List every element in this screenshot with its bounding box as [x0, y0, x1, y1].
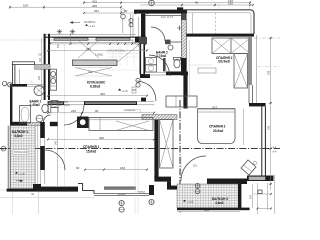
wire: top dim chain C: [83, 9, 184, 14]
closet top wall outline: [12, 62, 34, 65]
window sash frames: [54, 38, 88, 40]
WC toilet: [174, 59, 180, 68]
bedroom2 left wall upper: [183, 75, 187, 109]
bedroom2 right wall gray: [248, 37, 252, 85]
bathroom ext lines top: [17, 80, 31, 85]
WC divider: [163, 58, 166, 71]
window dim line: [50, 43, 146, 45]
svg-text:160: 160: [120, 166, 125, 170]
svg-text:251: 251: [94, 9, 99, 13]
svg-text:+1.05: +1.05: [19, 173, 26, 176]
kitchen/bedroom1 wall: [48, 101, 64, 105]
section mark left: [1, 146, 6, 151]
door arc balcony1: [45, 150, 65, 170]
closet/kitchen hatched wall: [35, 64, 50, 69]
facade window band bottom: [94, 194, 149, 196]
bedroom2 left wall lower: [154, 120, 158, 179]
svg-text:220: 220: [38, 75, 41, 80]
svg-text:385: 385: [204, 208, 209, 212]
dim vertical in terrace: [192, 13, 194, 34]
node: cross mark hall: [177, 26, 182, 31]
node: circled mark 2: [121, 9, 125, 13]
ext line bottom left: [12, 192, 14, 214]
node: section mark circle top: [149, 0, 155, 6]
kitchen right wall corner: [140, 74, 150, 78]
bottom step right: [149, 185, 154, 195]
right wall vertical lower: [262, 106, 266, 176]
section line B vertical: [179, 100, 181, 214]
faint line above dresser: [188, 64, 212, 66]
closet inner line: [18, 69, 20, 84]
balcony1 level: [15, 172, 18, 174]
ext lines center bottom: [135, 150, 138, 214]
balcony2 hatch: [177, 184, 239, 208]
circled icons corridor: [136, 78, 140, 82]
balcony2 door arc: [181, 156, 206, 181]
svg-text:90: 90: [95, 109, 99, 113]
washer squares: [146, 58, 157, 65]
hall left wall: [141, 14, 145, 37]
kitchen sink counter: [50, 69, 57, 90]
svg-text:шкафове: шкафове: [125, 109, 136, 112]
circled icons hall left: [129, 19, 133, 23]
canopy level mark: [85, 24, 88, 26]
bathroom1 bottom wall: [10, 122, 27, 126]
dash ref line right mid: [257, 66, 280, 68]
kitchen left wall outer: [44, 34, 46, 100]
shower fan circle: [34, 86, 44, 96]
balcony1 left rail: [8, 126, 10, 192]
svg-text:8.28м2: 8.28м2: [90, 84, 101, 88]
sink bathroom1: [36, 115, 43, 122]
svg-text:СПАЛНЯ 2: СПАЛНЯ 2: [209, 125, 226, 129]
balcony1 inner dim vertical: [37, 126, 39, 188]
canopy arrow: [70, 22, 80, 24]
kitchen table X: [75, 68, 112, 77]
wardrobe column right: [234, 54, 248, 89]
svg-text:ж.2: ж.2: [273, 146, 277, 149]
svg-text:СПАЛНЯ 1: СПАЛНЯ 1: [83, 145, 100, 149]
terrace outline top-right: [184, 10, 255, 34]
bedroom1 dim mid: [48, 138, 154, 140]
svg-text:405: 405: [92, 4, 97, 8]
circled icons left margin: [2, 81, 6, 85]
door arc hall: [151, 27, 165, 41]
svg-text:470: 470: [250, 194, 253, 199]
corridor wall jog: [141, 98, 146, 102]
svg-text:20,9м2: 20,9м2: [213, 129, 224, 133]
terrace dashed curtain line: [215, 13, 217, 34]
kitchen dim bottom: [48, 95, 147, 97]
svg-text:110: 110: [57, 43, 60, 48]
svg-text:430: 430: [99, 136, 104, 140]
canopy edge line: [44, 33, 136, 35]
kitchen counter band: [73, 60, 118, 66]
svg-text:4,45м2: 4,45м2: [30, 103, 41, 107]
WC room walls: [166, 72, 188, 76]
bedroom1 step walls to balcony2: [154, 177, 171, 182]
bottom right square symbol: [258, 190, 262, 194]
bathroom1 left wall: [10, 84, 12, 126]
property line bottom left: [0, 197, 94, 199]
nightstand column: [77, 117, 89, 129]
bottom right dim h: [254, 193, 272, 195]
balcony2 right wall: [238, 184, 241, 209]
jog hatched wall: [142, 115, 177, 120]
bedroom1 bottom corner pier: [33, 184, 41, 189]
svg-text:ПР230/140: ПР230/140: [14, 151, 27, 154]
door arc WC: [149, 55, 170, 76]
bedroom1 bottom wall: [33, 187, 78, 192]
circled icons balcony2: [195, 183, 200, 188]
svg-text:110: 110: [39, 57, 42, 62]
kitchen left wall inner: [48, 34, 50, 100]
bed2 dim: [198, 109, 235, 111]
svg-text:240: 240: [71, 109, 76, 113]
WC sink: [168, 45, 173, 50]
balcony1 arrow: [16, 180, 23, 182]
kitchen cabinet X: [78, 40, 99, 58]
hall top wall: [134, 10, 187, 14]
reference dotted line left: [0, 39, 44, 41]
bottom right dim h2: [258, 208, 272, 210]
svg-text:460: 460: [100, 92, 105, 96]
svg-text:6.28м2: 6.28м2: [95, 53, 104, 56]
svg-text:207: 207: [212, 105, 217, 109]
svg-text:345: 345: [55, 140, 58, 145]
right edge dim chain: [270, 38, 272, 190]
svg-text:4,6м2: 4,6м2: [215, 201, 224, 205]
right wall jog: [249, 103, 266, 106]
bed2 dim vertical: [243, 109, 245, 145]
bathtub: [20, 106, 31, 124]
balcony1 ПР box: [13, 150, 27, 154]
step wall right of washer: [52, 108, 58, 113]
svg-text:245: 245: [268, 125, 271, 130]
bathroom1 top wall: [10, 84, 27, 87]
bed bedroom1: [89, 118, 153, 131]
bottom step pier: [78, 184, 94, 194]
svg-text:166: 166: [228, 2, 233, 6]
svg-text:105: 105: [23, 4, 28, 8]
hall-WC wall: [171, 41, 182, 43]
balcony2 bottom dim: [177, 211, 240, 213]
terrace edge line right: [256, 35, 258, 103]
svg-text:3.74м2: 3.74м2: [156, 54, 167, 58]
svg-text:14ст х17,5: 14ст х17,5: [161, 16, 174, 19]
svg-text:перваз: перваз: [118, 193, 127, 196]
svg-text:251: 251: [86, 47, 91, 51]
bedroom2 bottom wall left: [207, 179, 247, 185]
dresser bedroom2: [198, 68, 216, 73]
svg-text:КОЗИРКА: КОЗИРКА: [84, 21, 96, 24]
desk bedroom2: [166, 96, 197, 107]
svg-text:298: 298: [268, 70, 271, 75]
closet left wall double: [13, 65, 15, 85]
facade gray bar: [104, 186, 136, 189]
bed bedroom2: [198, 109, 235, 144]
svg-text:1.70 1.40 2.20м: 1.70 1.40 2.20м: [107, 49, 125, 52]
armchair bedroom2: [241, 160, 256, 175]
wire: top dim chain B: [9, 4, 122, 9]
svg-text:251: 251: [193, 165, 198, 168]
left wall vertical dim: [41, 38, 43, 100]
svg-text:+1.20: +1.20: [122, 90, 129, 93]
section line A-A horizontal: [0, 148, 280, 150]
tiny boxes corridor: [132, 87, 136, 90]
svg-text:А-А: А-А: [273, 151, 278, 154]
hall top wall pier: [177, 7, 183, 10]
right bottom dims: [252, 184, 254, 208]
svg-text:+1.05: +1.05: [187, 201, 194, 204]
reference dash-dot right: [254, 37, 280, 39]
balcony1 bottom rail: [7, 189, 33, 192]
bedroom1 dim top: [48, 112, 154, 114]
kitchen top-right pier: [135, 37, 146, 43]
balcony1 door jambs: [40, 170, 45, 184]
svg-text:3,3м2: 3,3м2: [14, 134, 23, 138]
svg-text:90: 90: [195, 0, 199, 4]
hall top wall inner line: [145, 15, 181, 17]
snowflake symbols: [57, 29, 75, 34]
kitchen level mark: [118, 89, 121, 91]
svg-text:тераса: тераса: [137, 190, 146, 193]
faint rail ext left: [0, 189, 7, 191]
bedroom1 dim bottom: [85, 169, 147, 171]
small X right of kitchen counter: [116, 40, 145, 63]
node circle at dim junction: [121, 14, 126, 19]
wardrobe bedroom2 left: [160, 120, 173, 168]
svg-text:МП 45/60: МП 45/60: [59, 104, 70, 107]
bedroom2 right wall lower double: [249, 85, 253, 104]
bedroom2 top wall: [184, 34, 255, 37]
hall bottom wall piers: [139, 37, 147, 44]
bedroom1 vert dim: [57, 106, 59, 186]
door arc kitchen-bedroom1: [64, 105, 84, 125]
hall left shaft lines: [131, 14, 139, 37]
svg-text:15,6м2: 15,6м2: [86, 150, 97, 154]
toilet bathroom1: [42, 104, 48, 112]
bedroom2 bottom wall right (window): [247, 176, 274, 182]
kitchen dim line: [48, 49, 147, 51]
washer outside bathroom: [51, 101, 58, 108]
kitchen right wall double: [140, 42, 142, 74]
wire: top dim chain B right: [140, 0, 254, 6]
kitchen wall white core: [49, 102, 136, 104]
balcony2 bottom rail: [177, 208, 250, 211]
circled drain icons bottom: [119, 200, 124, 205]
svg-text:+1.20: +1.20: [88, 25, 95, 28]
balcony1 hatch: [10, 126, 35, 189]
door arc bedroom1: [137, 81, 156, 101]
svg-text:90: 90: [76, 166, 80, 170]
terrace ext lines top: [219, 3, 250, 9]
svg-text:190: 190: [88, 71, 93, 74]
wire: top dim chain A: [83, 0, 251, 4]
faint inner face bedroom2: [189, 40, 191, 96]
wardrobe bedroom2 top: [212, 38, 250, 54]
bedroom1 left wall: [40, 122, 45, 138]
kitchen top window band: [44, 36, 146, 38]
svg-text:/20,9м2/: /20,9м2/: [218, 60, 230, 64]
wall hall/bedroom2 vertical: [181, 14, 187, 76]
balcony2 level: [183, 200, 186, 202]
bathroom door arc: [44, 115, 51, 122]
